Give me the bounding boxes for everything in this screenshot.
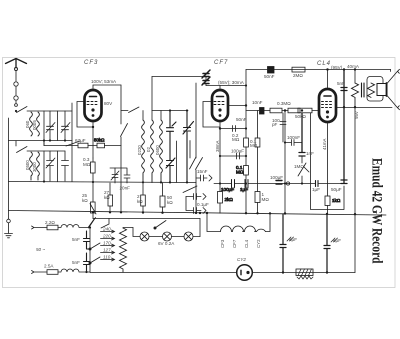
svg-text:0005: 0005 [32, 120, 37, 130]
svg-text:CF3: CF3 [84, 60, 98, 66]
svg-text:MΩ: MΩ [262, 197, 270, 202]
svg-text:(95V): (95V) [331, 65, 343, 70]
svg-text:8μF: 8μF [289, 237, 297, 242]
svg-text:50kΩ: 50kΩ [94, 138, 105, 143]
svg-text:100V; 53mA: 100V; 53mA [91, 79, 117, 84]
svg-text:15nF: 15nF [197, 169, 208, 174]
svg-text:20nF: 20nF [120, 186, 131, 191]
svg-text:0.3MΩ: 0.3MΩ [277, 101, 291, 106]
svg-text:0500: 0500 [25, 160, 30, 170]
svg-text:CF7: CF7 [232, 239, 237, 248]
svg-text:kΩ: kΩ [167, 200, 173, 205]
svg-text:50μF: 50μF [331, 187, 342, 192]
svg-text:40mA: 40mA [347, 64, 360, 69]
svg-text:127: 127 [103, 248, 111, 253]
svg-text:pF: pF [272, 122, 278, 127]
svg-text:MΩ: MΩ [250, 143, 258, 148]
svg-text:50kΩ: 50kΩ [295, 114, 306, 119]
svg-text:CY2: CY2 [256, 239, 261, 248]
svg-text:kΩ: kΩ [137, 199, 143, 204]
svg-text:95V: 95V [354, 111, 359, 119]
svg-text:CL4: CL4 [244, 239, 249, 248]
svg-text:80V: 80V [104, 101, 113, 106]
svg-text:50 ~: 50 ~ [36, 247, 45, 252]
svg-text:CF3: CF3 [220, 239, 225, 248]
svg-text:(55V); 30mA: (55V); 30mA [218, 80, 245, 85]
svg-text:10nF: 10nF [252, 100, 263, 105]
svg-text:110: 110 [103, 255, 111, 260]
svg-text:50nF: 50nF [264, 74, 275, 79]
svg-text:5nF: 5nF [72, 237, 80, 242]
svg-text:6V 0.2A: 6V 0.2A [158, 241, 175, 246]
svg-text:2MΩ: 2MΩ [293, 73, 303, 78]
svg-text:CL4: CL4 [317, 61, 331, 67]
svg-text:2.5A: 2.5A [44, 264, 54, 269]
svg-text:220: 220 [102, 234, 111, 239]
svg-text:100μF: 100μF [221, 187, 234, 192]
svg-text:100μF: 100μF [231, 149, 244, 154]
svg-text:170: 170 [103, 241, 111, 246]
svg-text:1MΩ: 1MΩ [294, 164, 304, 169]
svg-text:38mA: 38mA [215, 140, 220, 152]
svg-text:1μF: 1μF [312, 187, 320, 192]
svg-text:kΩ: kΩ [104, 195, 110, 200]
svg-text:02: 02 [146, 147, 151, 152]
svg-text:240: 240 [102, 227, 111, 232]
svg-text:41mA: 41mA [322, 138, 327, 150]
svg-text:5nF: 5nF [337, 81, 345, 86]
svg-text:Emud 42 GW Record: Emud 42 GW Record [369, 158, 385, 264]
svg-text:1μF: 1μF [240, 187, 248, 192]
svg-text:1nF: 1nF [306, 151, 314, 156]
svg-text:0.1μF: 0.1μF [197, 202, 209, 207]
svg-text:2kΩ: 2kΩ [225, 197, 234, 202]
svg-text:8μF: 8μF [333, 238, 341, 243]
svg-text:50nF: 50nF [236, 117, 247, 122]
svg-text:kΩ: kΩ [82, 198, 88, 203]
svg-text:MΩ: MΩ [83, 162, 91, 167]
svg-text:2.2Ω: 2.2Ω [45, 220, 55, 225]
svg-text:0600: 0600 [155, 145, 160, 155]
svg-text:MΩ: MΩ [232, 137, 240, 142]
svg-text:060: 060 [25, 120, 30, 128]
svg-text:MΩ: MΩ [236, 170, 244, 175]
svg-text:3000: 3000 [32, 162, 37, 172]
svg-text:CF7: CF7 [214, 60, 228, 66]
svg-text:0220: 0220 [137, 145, 142, 155]
svg-text:100μF: 100μF [270, 175, 283, 180]
svg-text:1kΩ: 1kΩ [332, 198, 341, 203]
svg-text:100nF: 100nF [287, 135, 300, 140]
svg-text:CY2: CY2 [237, 257, 246, 262]
svg-text:67μF: 67μF [75, 138, 86, 143]
svg-text:5nF: 5nF [72, 260, 80, 265]
